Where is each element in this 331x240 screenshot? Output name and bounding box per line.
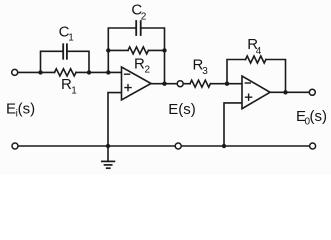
resistor R1 [55,69,77,76]
wire: C2 to right feedback riser down to U1 output [141,28,165,84]
wire: U1 noninverting input [108,93,122,146]
wire: R2 branch left lead [108,49,128,51]
terminal: bottom right [310,143,316,149]
node: input branch junction [38,70,42,74]
wire: input main horizontal to U1 inverting input [18,71,55,73]
wire: R1 right lead to op-amp input [76,71,122,73]
svg-text:(s): (s) [18,101,35,118]
wire: R4 right lead down to U2 output [266,60,286,93]
capacitor C2 [136,21,141,35]
terminal: bottom middle [175,143,181,149]
terminal: input Ei(s) [12,69,18,75]
op-amp U2 [242,76,270,109]
node: U2 noninverting rail junction [222,144,226,148]
node: R2 right junction [162,48,166,52]
node: R2 left junction [106,48,110,52]
wire: U1 output [151,83,177,85]
wire: feedback left riser [108,28,136,72]
node: U2 output junction [283,90,287,94]
wire: R4 loop left riser and top [227,60,246,84]
svg-text:1: 1 [68,32,74,43]
svg-text:R: R [134,56,145,73]
wire: R2 branch right lead [148,49,164,51]
svg-text:3: 3 [202,66,208,77]
svg-text:4: 4 [256,46,262,57]
svg-text:1: 1 [71,86,77,97]
svg-text:E: E [6,101,16,118]
svg-text:2: 2 [141,12,147,23]
node: ground junction [106,144,110,148]
svg-text:2: 2 [145,65,151,76]
terminal: E(s) [177,81,183,87]
node: R4 tap junction [225,82,229,86]
svg-text:E(s): E(s) [168,101,196,118]
capacitor C1 [63,44,67,58]
terminal: bottom left [12,143,18,149]
resistor R2 [128,47,148,54]
wire: C1 branch left riser [41,51,64,72]
wire: bottom common rail [15,145,313,147]
node: feedback tap junction [106,70,110,74]
svg-text:(s): (s) [310,108,328,125]
terminal: Eo(s) [309,89,315,95]
node: feedback/output junction [162,82,166,86]
wire: U2 noninverting input [224,103,242,146]
wire: U2 output [270,91,309,93]
wire: C1 branch right return [67,51,89,72]
wire: R3 to U2 inverting input [210,83,242,85]
node: C1/R1 rejoin junction [87,70,91,74]
resistor R3 [190,80,210,87]
op-amp U1 [122,67,152,100]
ground [102,146,115,168]
wire: E(s) terminal to R3 [183,83,190,85]
resistor R4 [246,56,266,63]
